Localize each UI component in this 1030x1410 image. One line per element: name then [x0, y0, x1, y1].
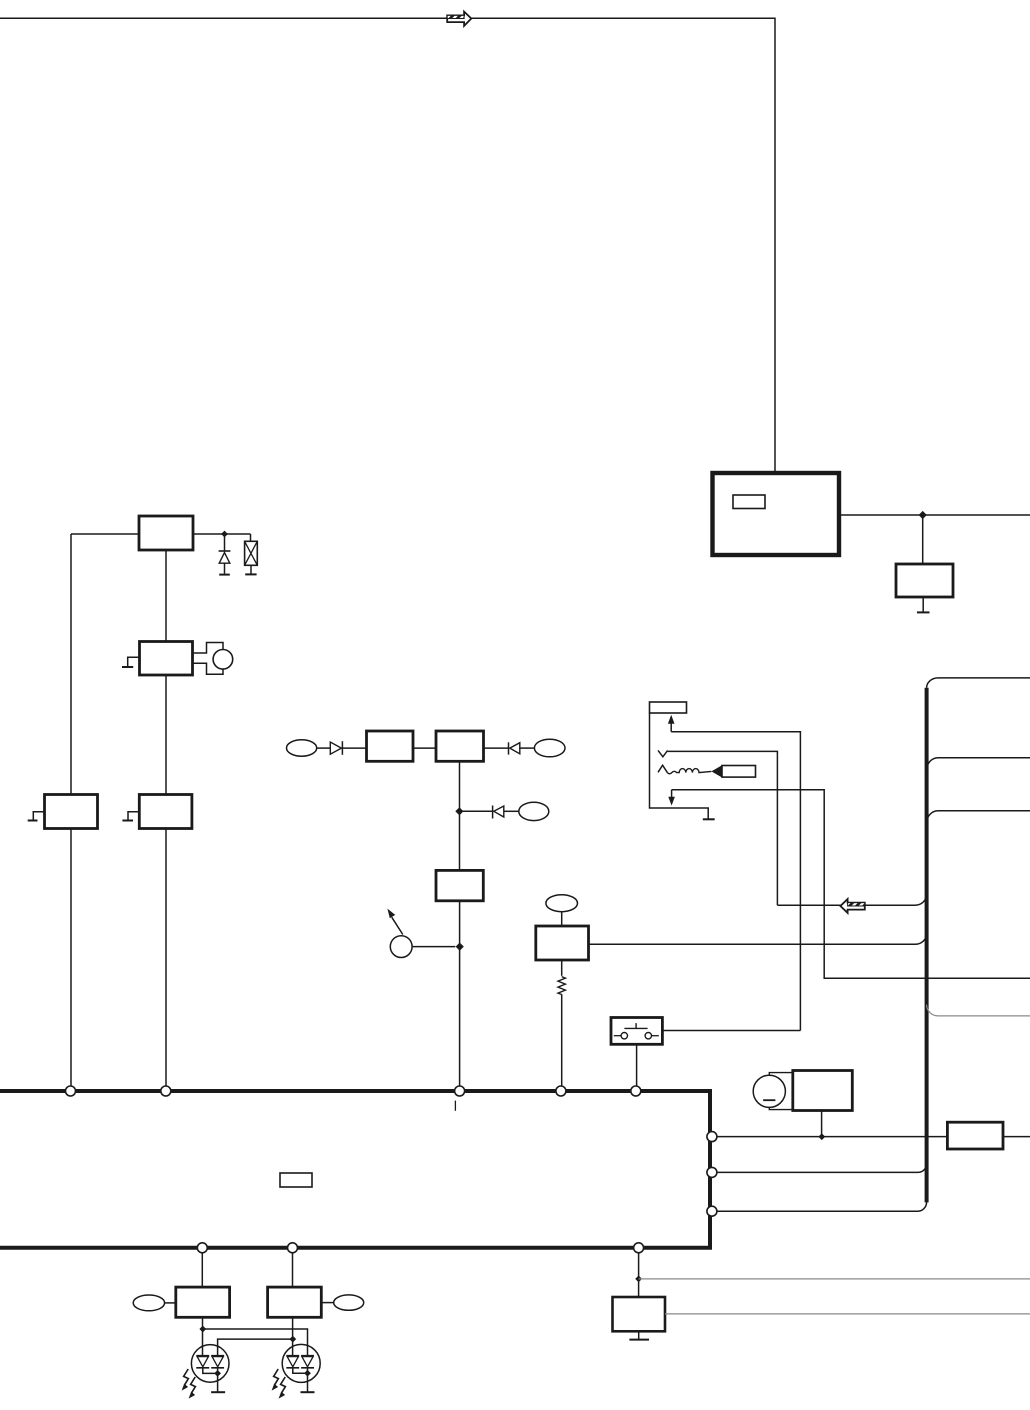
light rays: [182, 1369, 196, 1399]
component box B2: [367, 731, 414, 761]
wire: K1 bottom: [165, 550, 167, 642]
connector ellipse E1: [287, 740, 317, 756]
component box B6: [947, 1122, 1003, 1149]
switch SW1 (momentary): [611, 1018, 662, 1045]
wire: [459, 810, 492, 812]
component box B4: [436, 870, 483, 900]
wire: K1 left pin: [71, 533, 139, 535]
diode D2: [509, 742, 520, 754]
wire: [922, 515, 924, 564]
wire: crossover to right LED: [203, 1329, 308, 1355]
ECU inner label rect: [280, 1173, 312, 1187]
sensor S1 (circle with arrow): [387, 909, 412, 958]
pin stub inside ECU: [454, 1101, 456, 1111]
connector arrow B (left-pointing, hatched): [840, 899, 864, 913]
wire: harness branch 3: [927, 811, 1030, 823]
diode D3: [493, 806, 504, 819]
component box B5: [536, 926, 589, 960]
diode D4 (zener to ground): [219, 534, 231, 575]
wire: [165, 1302, 176, 1304]
wire: K1 right pin: [193, 533, 251, 535]
wire: rim to ground: [650, 713, 709, 819]
wire: long gray line 1: [639, 1278, 1030, 1280]
wire: top feed line: [0, 18, 775, 473]
noise suppressor (crossed box): [245, 534, 258, 574]
wire: ECU pin line 1: [717, 1136, 1030, 1138]
wire: [201, 1253, 203, 1287]
U1 inner label rect: [733, 495, 765, 509]
terminal: [707, 1167, 717, 1177]
wire: L1 bottom feed: [202, 1317, 204, 1355]
harness trunk (thick): [925, 688, 929, 1203]
LED indicator LED2: [282, 1344, 320, 1392]
wire: lighter pin 3 across harness: [672, 790, 1030, 979]
connector ellipse E3: [519, 802, 549, 820]
wire: B4 bottom vertical: [459, 901, 461, 1086]
wire: [520, 747, 535, 749]
contact caret: [658, 765, 667, 772]
junction: [455, 807, 463, 815]
wire: ECU bottom pin to B7: [638, 1253, 640, 1297]
arrow down: [671, 790, 673, 797]
wire: [561, 912, 563, 926]
relay box K3: [45, 795, 98, 829]
wire: harness branch 2: [927, 758, 1030, 770]
resistor R1: [558, 960, 565, 1086]
connector ellipse E6: [334, 1295, 364, 1310]
wire: U1 right output: [839, 514, 1030, 516]
socket rim rect: [650, 702, 687, 713]
ECU main box (thick): [0, 1091, 710, 1248]
wire: long vertical left: [70, 534, 72, 1086]
wire: SW1 bottom pin: [636, 1044, 638, 1086]
motor M2 assembly: [753, 1071, 852, 1137]
component box B1: [896, 564, 953, 597]
wire: SW1 right pin: [662, 1030, 800, 1032]
connector arrow A (right-pointing, hatched): [447, 12, 471, 26]
terminal: [556, 1086, 566, 1096]
wire: ECU pin line 2: [717, 1164, 927, 1173]
control unit U1 (thick box): [713, 473, 840, 555]
wire: crossover to left LED: [218, 1339, 293, 1356]
ground: K2 left pin: [122, 657, 140, 667]
wire: B5 to harness: [589, 934, 927, 945]
contact V: [658, 750, 668, 756]
ground: [703, 818, 715, 820]
LED indicator LED1: [191, 1345, 229, 1393]
component box B3: [436, 731, 484, 761]
ground: K4 left pin: [122, 812, 139, 821]
wire: lighter pin 1 to switch line: [671, 732, 800, 1031]
junction: [919, 511, 927, 519]
light rays: [272, 1369, 286, 1399]
junction: [635, 1276, 642, 1283]
ground: K3 left pin: [28, 812, 45, 821]
relay box K1: [139, 516, 193, 550]
relay box K4: [139, 795, 192, 829]
wire: [292, 1253, 294, 1287]
plug body rect: [722, 766, 756, 778]
wire: [504, 810, 519, 812]
junction: [818, 1133, 825, 1140]
wire: harness top branch: [927, 678, 1030, 688]
terminal: [455, 1086, 465, 1096]
terminal: [197, 1243, 207, 1253]
connector ellipse E4: [546, 895, 578, 912]
connector ellipse E5: [133, 1295, 164, 1311]
relay box K2: [140, 642, 193, 676]
cigarette lighter assembly: [650, 702, 756, 819]
wire: [317, 747, 331, 749]
terminal: [707, 1206, 717, 1216]
terminal: [161, 1086, 171, 1096]
terminal: [631, 1086, 641, 1096]
wire: long gray line 2: [665, 1313, 1030, 1315]
terminal: [634, 1243, 644, 1253]
wire: L2 bottom feed: [292, 1317, 294, 1355]
terminal: [288, 1243, 298, 1253]
heater element coil: [667, 769, 711, 774]
wire: arrow line to harness: [777, 894, 926, 905]
arrow up: [670, 724, 672, 732]
junction: [456, 943, 464, 951]
wire: [342, 747, 366, 749]
wire: K2 bottom: [165, 675, 167, 1086]
wire: [321, 1302, 333, 1304]
motor M1 (circle with yoke): [193, 643, 233, 675]
plug tip (filled triangle): [711, 765, 722, 777]
junction: [221, 531, 228, 538]
wire: [413, 747, 436, 749]
ground: [629, 1331, 649, 1339]
component box B7: [613, 1297, 666, 1331]
junction: [289, 1336, 296, 1343]
wire: ECU pin line 3: [717, 1202, 927, 1211]
terminal: [66, 1086, 76, 1096]
junction: [199, 1326, 206, 1333]
connector ellipse E2: [534, 739, 565, 757]
diode D1: [330, 741, 342, 755]
lamp unit box L2: [268, 1287, 322, 1317]
wire: lighter pin 2 to arrow line: [668, 751, 778, 905]
wire: [484, 747, 509, 749]
wire: harness branch 4 (gray): [927, 1005, 1030, 1016]
wire: [412, 946, 455, 948]
wire: B3 bottom vertical: [459, 761, 461, 870]
terminal: [707, 1132, 717, 1142]
lamp unit box L1: [176, 1287, 230, 1317]
ground: [922, 597, 924, 612]
